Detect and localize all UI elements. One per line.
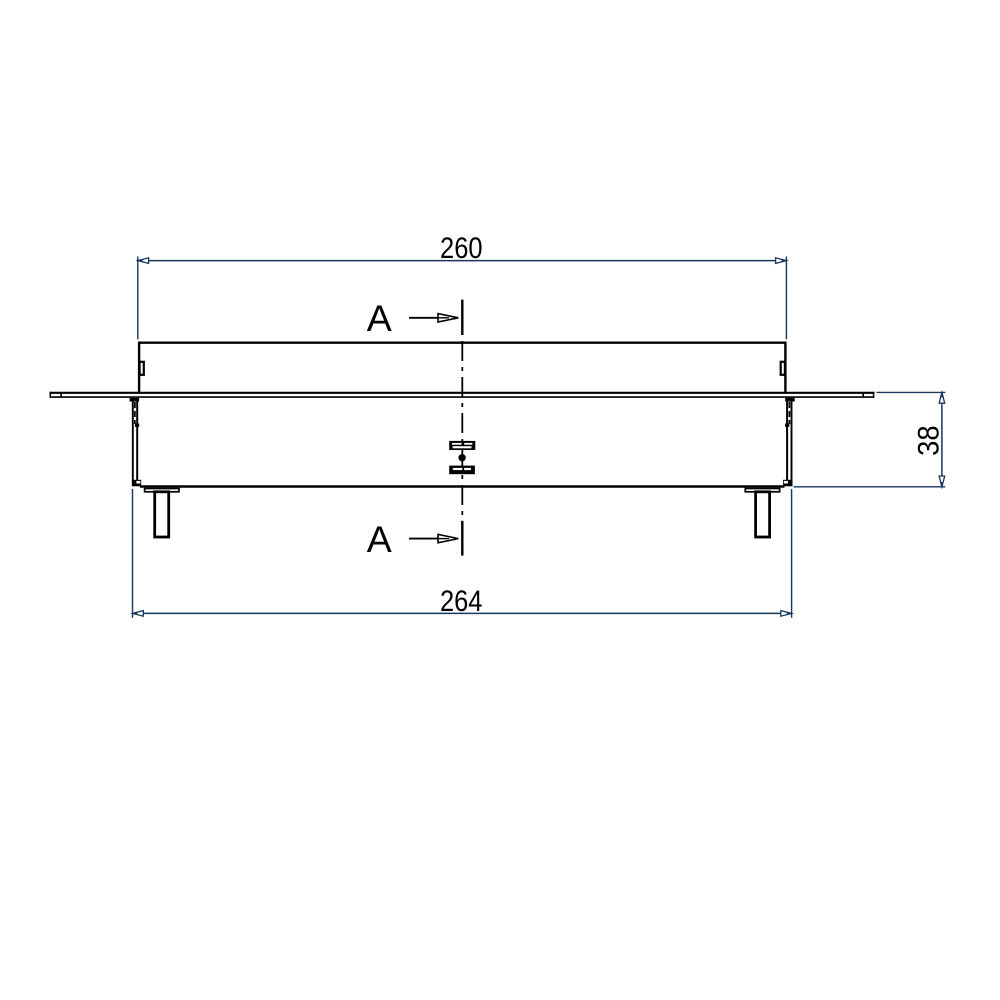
upper body right tab — [781, 362, 785, 375]
left leg: tube — [155, 492, 169, 537]
right leg: tube — [756, 492, 770, 537]
upper body outline (top pan, 260 wide) — [139, 343, 785, 393]
svg-text:38: 38 — [912, 425, 945, 456]
dimension 264: right extension line — [791, 489, 793, 618]
svg-text:A: A — [367, 518, 392, 560]
lower box left wall: top flange — [130, 398, 140, 402]
svg-text:264: 264 — [440, 585, 483, 618]
section arrow top: shaft — [409, 317, 438, 319]
section arrow top: open arrowhead — [438, 314, 458, 322]
lower box right wall: bottom hook — [783, 480, 792, 487]
section arrow bottom: shaft — [409, 538, 438, 540]
left leg: flange — [145, 489, 179, 492]
section arrow bottom: open arrowhead — [438, 534, 458, 542]
dimension 38: bottom arrowhead — [939, 476, 945, 487]
lower box left wall: outer line — [132, 398, 134, 481]
svg-text:260: 260 — [440, 232, 483, 265]
center detail: dot — [458, 454, 465, 461]
mounting plate: right end cap — [873, 392, 875, 398]
upper body left tab — [140, 362, 144, 375]
dimension 38: top extension line — [877, 391, 946, 393]
center detail: lower bracket — [449, 466, 475, 475]
dimension 264: left arrowhead — [133, 611, 144, 617]
lower box right wall: step notch — [785, 424, 789, 427]
dimension 38: dimension line — [941, 392, 943, 486]
lower box right wall: hidden dashed line — [788, 402, 790, 424]
dimension 260: dimension line — [138, 260, 787, 262]
lower box right wall: top flange — [785, 398, 795, 402]
lower box right wall: inner line — [786, 402, 788, 481]
center detail: upper bracket — [449, 441, 475, 450]
right leg: flange — [745, 489, 779, 492]
lower box left wall: inner line — [136, 402, 138, 481]
section line A-A: centerline (dash-dot) — [461, 341, 463, 521]
dimension 264: right arrowhead — [781, 611, 792, 617]
mounting plate: left end cap — [49, 392, 51, 398]
dimension 260: left arrowhead — [138, 258, 149, 264]
lower box left wall: bottom hook — [132, 480, 141, 487]
section line A-A: bottom solid segment — [461, 521, 463, 556]
lower box left wall: hidden dashed line — [134, 402, 136, 424]
dimension 260: left extension line — [137, 257, 139, 340]
dimension 264: left extension line — [132, 489, 134, 618]
dimension 38: top arrowhead — [939, 392, 945, 403]
mounting plate: right tick — [862, 393, 864, 397]
lower box right wall: outer line — [791, 398, 793, 481]
dimension 38: bottom extension line — [794, 486, 946, 488]
section line A-A: top solid segment — [461, 300, 463, 335]
lower box left wall: step notch — [135, 424, 139, 427]
dimension 260: right arrowhead — [776, 258, 787, 264]
mounting plate: top line — [50, 392, 875, 394]
lower box bottom edge — [140, 485, 785, 487]
svg-text:A: A — [367, 297, 392, 339]
dimension 260: right extension line — [785, 257, 787, 340]
mounting plate: bottom line — [50, 396, 875, 398]
dimension 264: dimension line — [133, 612, 792, 614]
mounting plate: left tick — [60, 393, 62, 397]
